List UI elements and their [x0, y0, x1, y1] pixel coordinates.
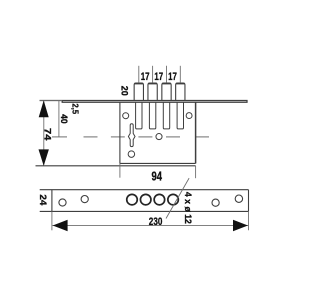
node: slot 3 in plate [163, 102, 169, 129]
node: tab/prong 2 [148, 83, 157, 101]
svg-text:4 x ø 12: 4 x ø 12 [183, 192, 193, 224]
wire: 40 dimension line [58, 100, 60, 136]
wire: 230 dimension line [52, 224, 248, 226]
wire: dashed horizontal centerline of upper view [52, 136, 209, 138]
node: strip big hole F [168, 194, 179, 205]
wire: 74 top extension to bar [40, 99, 63, 101]
node: top-left hole in plate [123, 113, 129, 119]
node: strip hole left B [81, 196, 88, 203]
node: strip hole right G [212, 199, 219, 206]
node: 230 left arrowhead [53, 220, 68, 231]
wire: extension lines above prongs for 17 spacing [139, 66, 181, 83]
node: tab/prong 4 [176, 83, 185, 101]
svg-text:17: 17 [154, 71, 163, 83]
node: bottom-left hole in plate [128, 151, 135, 158]
node: slot 2 in plate [149, 102, 155, 129]
svg-text:40: 40 [59, 114, 69, 124]
svg-text:17: 17 [168, 71, 177, 83]
node: tab/prong 1 [134, 83, 143, 101]
svg-text:230: 230 [149, 216, 163, 228]
node: tab/prong 3 [162, 83, 171, 101]
svg-text:94: 94 [152, 170, 163, 184]
wire: 230 extension line right [248, 211, 250, 230]
wire: 94 extension line left [119, 163, 121, 177]
node: strip hole left A [59, 199, 66, 206]
node: strip outline (lower view) [40, 190, 249, 212]
wire: 74 dimension line [43, 101, 45, 165]
wire: leader line for hole callout [166, 178, 189, 218]
svg-text:74: 74 [43, 128, 53, 140]
svg-text:2,5: 2,5 [70, 104, 80, 115]
node: slot 1 in plate [136, 102, 142, 129]
node: lock plate body outline [36, 102, 196, 166]
node: 74 up arrowhead [39, 100, 49, 117]
node: slot 4 in plate [177, 102, 183, 129]
node: flat bar cross-section (2.5 thick flange) [40, 100, 248, 102]
node: 74 down arrowhead [39, 149, 49, 166]
svg-text:17: 17 [141, 71, 150, 83]
node: top-right hole in plate [186, 113, 192, 119]
node: keyhole slot with diamond middle [128, 124, 135, 147]
svg-text:24: 24 [38, 194, 48, 205]
node: center hole in plate [156, 134, 162, 140]
node: strip big hole C [127, 194, 138, 205]
node: 230 right arrowhead [233, 220, 248, 231]
node: strip big hole D [140, 194, 151, 205]
svg-text:20: 20 [120, 86, 130, 96]
node: strip big hole E [154, 194, 165, 205]
wire: 94 extension line right [195, 166, 197, 178]
node: strip hole right H [235, 195, 242, 202]
wire: 230 extension line left [51, 211, 53, 230]
